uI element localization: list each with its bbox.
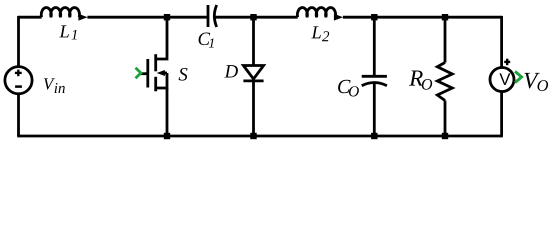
label C1	[199, 33, 211, 46]
L1 arrow	[78, 14, 87, 21]
MOSFET channel upper segment	[154, 54, 157, 71]
wire Ro node to right corner	[445, 16, 502, 19]
label Vo	[524, 73, 539, 89]
label S	[179, 68, 188, 81]
node Co top junction	[371, 14, 377, 20]
capacitor Co curved plate	[362, 83, 387, 86]
inductor L1	[41, 8, 79, 18]
MOSFET gate bar	[146, 59, 149, 88]
wire right vertical upper	[500, 16, 503, 68]
resistor Ro zigzag	[437, 63, 452, 101]
gate green arrow	[136, 68, 141, 79]
label L1	[59, 25, 69, 37]
inductor L2	[297, 8, 335, 18]
node diode bottom junction	[250, 133, 256, 139]
wire right vertical lower	[500, 91, 503, 136]
capacitor Co top lead	[373, 17, 376, 76]
Vin plus sign	[15, 70, 22, 77]
label Co	[338, 80, 350, 93]
wire L1 to MOSFET drain node	[87, 16, 167, 19]
MOSFET gate lead	[141, 72, 148, 75]
diode D top lead	[252, 17, 255, 65]
wire top left horizontal	[19, 16, 42, 19]
wire L2 to Co node	[343, 16, 374, 19]
MOSFET body line with arrow	[164, 72, 168, 75]
MOSFET Q/S drain lead	[156, 17, 167, 59]
Vin minus sign	[15, 85, 22, 88]
diode D bottom lead	[252, 79, 255, 136]
wire left vertical upper	[17, 16, 20, 66]
label L2	[311, 26, 321, 38]
wire bottom horizontal	[17, 135, 503, 138]
node Co bottom junction	[371, 133, 377, 139]
voltage source Vin	[5, 67, 32, 94]
node source junction	[164, 133, 170, 139]
wire MOSFET node to C1	[167, 16, 207, 19]
wire C1 to diode node	[215, 16, 253, 19]
label Ro	[409, 71, 423, 86]
voltmeter output green arrow	[515, 71, 522, 82]
label Vin	[44, 78, 55, 89]
MOSFET source vertical	[166, 88, 169, 136]
diode D triangle	[243, 66, 263, 80]
wire left vertical lower	[17, 94, 20, 136]
MOSFET channel lower segment	[154, 77, 157, 92]
MOSFET source lead	[156, 73, 167, 88]
capacitor C1 right curved plate	[214, 5, 216, 27]
wire Co node to Ro node	[374, 16, 445, 19]
voltmeter plus sign	[504, 59, 510, 65]
voltmeter letter V	[499, 73, 510, 84]
resistor Ro top lead	[444, 17, 447, 62]
capacitor Co straight plate	[362, 75, 387, 78]
resistor Ro bottom lead	[444, 101, 447, 137]
node diode top junction	[250, 14, 256, 20]
MOSFET body arrowhead	[157, 70, 165, 76]
wire diode node to L2	[254, 16, 298, 19]
node Ro top junction	[442, 14, 448, 20]
L2 arrow	[334, 14, 343, 21]
voltmeter Vo circle	[490, 68, 514, 92]
capacitor C1 left plate	[207, 5, 210, 27]
label D	[224, 65, 238, 77]
diode D cathode bar	[243, 80, 263, 83]
node Ro bottom junction	[442, 133, 448, 139]
node drain junction	[164, 14, 170, 20]
capacitor Co bottom lead	[373, 83, 376, 136]
